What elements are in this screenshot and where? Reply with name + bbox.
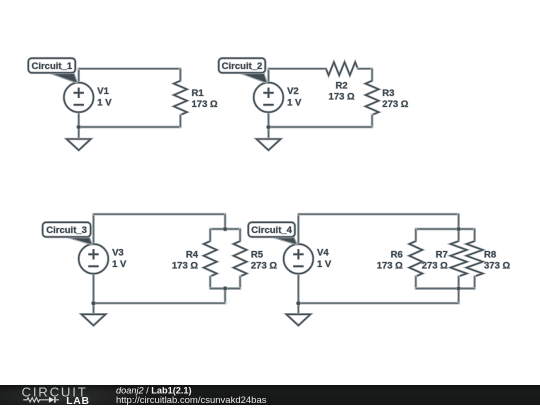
callout Circuit_3 <box>43 222 93 245</box>
label R1 173 ohm <box>192 88 218 110</box>
voltage source V1 <box>64 83 94 113</box>
callout Circuit_4 <box>248 222 297 245</box>
svg-text:R3: R3 <box>382 88 394 99</box>
wire V4 top to rail <box>297 214 300 244</box>
voltage source V2 <box>254 83 284 113</box>
wire top rail circuit 4 <box>298 213 458 216</box>
wire bottom branch circuit 4 <box>416 287 475 290</box>
svg-text:R1: R1 <box>192 88 205 99</box>
wire top branch circuit 4 <box>416 228 475 231</box>
svg-text:http://circuitlab.com/csunvakd: http://circuitlab.com/csunvakd24bas <box>116 395 267 405</box>
wire V1 top to rail <box>77 69 80 83</box>
svg-text:173 Ω: 173 Ω <box>329 92 355 103</box>
wire to ground <box>92 303 95 314</box>
svg-text:Circuit_1: Circuit_1 <box>31 61 72 72</box>
label R4 173 ohm <box>172 249 199 271</box>
svg-text:R6: R6 <box>391 249 403 260</box>
wire top rail to R2 <box>269 67 327 70</box>
wire V2 bottom to node <box>267 112 270 127</box>
resistor R8 <box>466 229 482 289</box>
node circuit 4 bottom node <box>456 286 461 291</box>
label R6 173 ohm <box>377 249 403 271</box>
svg-text:V2: V2 <box>287 86 299 97</box>
resistor R2 <box>326 62 358 75</box>
wire rail down to top node <box>224 214 227 229</box>
resistor R5 <box>234 229 247 289</box>
svg-text:173 Ω: 173 Ω <box>192 99 218 110</box>
wire bottom rail circuit 4 <box>298 302 458 305</box>
node V3 ground junction <box>91 301 96 306</box>
svg-text:1 V: 1 V <box>317 259 332 270</box>
CircuitLab logo <box>22 385 90 407</box>
svg-text:R2: R2 <box>336 80 348 91</box>
wire V2 top to rail <box>267 69 270 83</box>
svg-text:173 Ω: 173 Ω <box>377 261 403 272</box>
svg-text:R5: R5 <box>251 249 264 260</box>
svg-text:Circuit_3: Circuit_3 <box>46 225 87 236</box>
ground <box>67 139 91 150</box>
ground <box>81 314 105 325</box>
resistor R7 <box>450 229 466 289</box>
label V4 1 V <box>317 248 332 270</box>
wire bottom rail circuit 3 <box>94 302 226 305</box>
svg-text:R4: R4 <box>186 249 199 260</box>
resistor R4 <box>204 229 217 289</box>
footer title text <box>116 386 267 406</box>
wire top branch circuit 3 <box>210 228 240 231</box>
svg-text:173 Ω: 173 Ω <box>172 261 198 272</box>
node V2 ground junction <box>266 125 271 130</box>
svg-text:1 V: 1 V <box>112 259 127 270</box>
wire to ground <box>297 303 300 314</box>
wire bottom branch circuit 3 <box>210 287 240 290</box>
wire top rail circuit 1 <box>79 67 181 70</box>
svg-text:R7: R7 <box>436 249 448 260</box>
svg-text:V1: V1 <box>97 86 109 97</box>
voltage source V3 <box>79 244 109 274</box>
wire R2 to corner <box>358 67 372 70</box>
wire V3 bottom to node <box>92 274 95 304</box>
label R8 373 ohm <box>484 249 510 271</box>
svg-text:LAB: LAB <box>66 396 89 405</box>
resistor R6 <box>409 229 422 289</box>
label R7 273 ohm <box>422 249 448 271</box>
node circuit 3 bottom node <box>223 286 228 291</box>
svg-text:273 Ω: 273 Ω <box>382 99 408 110</box>
label R5 273 ohm <box>251 249 277 271</box>
svg-text:R8: R8 <box>484 249 496 260</box>
svg-text:V4: V4 <box>317 248 329 259</box>
label V1 1 V <box>97 86 112 108</box>
svg-text:Circuit_2: Circuit_2 <box>222 61 263 72</box>
label R2 173ohm <box>329 80 355 102</box>
svg-text:Circuit_4: Circuit_4 <box>251 225 292 236</box>
wire bottom rail circuit 2 <box>269 126 373 129</box>
svg-text:273 Ω: 273 Ω <box>422 261 448 272</box>
resistor R3 <box>366 69 379 127</box>
ground <box>286 314 310 325</box>
wire to ground <box>77 127 80 139</box>
node circuit 4 top node <box>456 227 461 232</box>
node V4 ground junction <box>296 301 301 306</box>
wire bottom node down <box>224 289 227 304</box>
wire top rail circuit 3 <box>94 213 226 216</box>
wire V3 top to rail <box>92 214 95 244</box>
wire bottom node down <box>457 289 460 304</box>
label V3 1 V <box>112 248 127 270</box>
resistor R1 <box>174 69 187 127</box>
label R3 273 ohm <box>382 88 408 110</box>
voltage source V4 <box>284 244 314 274</box>
node V1 ground junction <box>76 125 81 130</box>
wire to ground <box>267 127 270 139</box>
svg-text:273 Ω: 273 Ω <box>251 261 277 272</box>
ground <box>256 139 280 150</box>
wire V4 bottom to node <box>297 274 300 304</box>
callout Circuit_1 <box>28 58 77 83</box>
callout Circuit_2 <box>219 58 268 83</box>
wire V1 bottom to ground node <box>77 112 80 127</box>
wire bottom rail circuit 1 <box>79 126 181 129</box>
svg-text:1 V: 1 V <box>287 98 302 109</box>
node circuit 3 top node <box>223 227 228 232</box>
svg-text:373 Ω: 373 Ω <box>484 261 510 272</box>
svg-text:1 V: 1 V <box>97 98 112 109</box>
label V2 1 V <box>287 86 302 108</box>
wire rail down to top node <box>457 214 460 229</box>
svg-text:V3: V3 <box>112 248 124 259</box>
